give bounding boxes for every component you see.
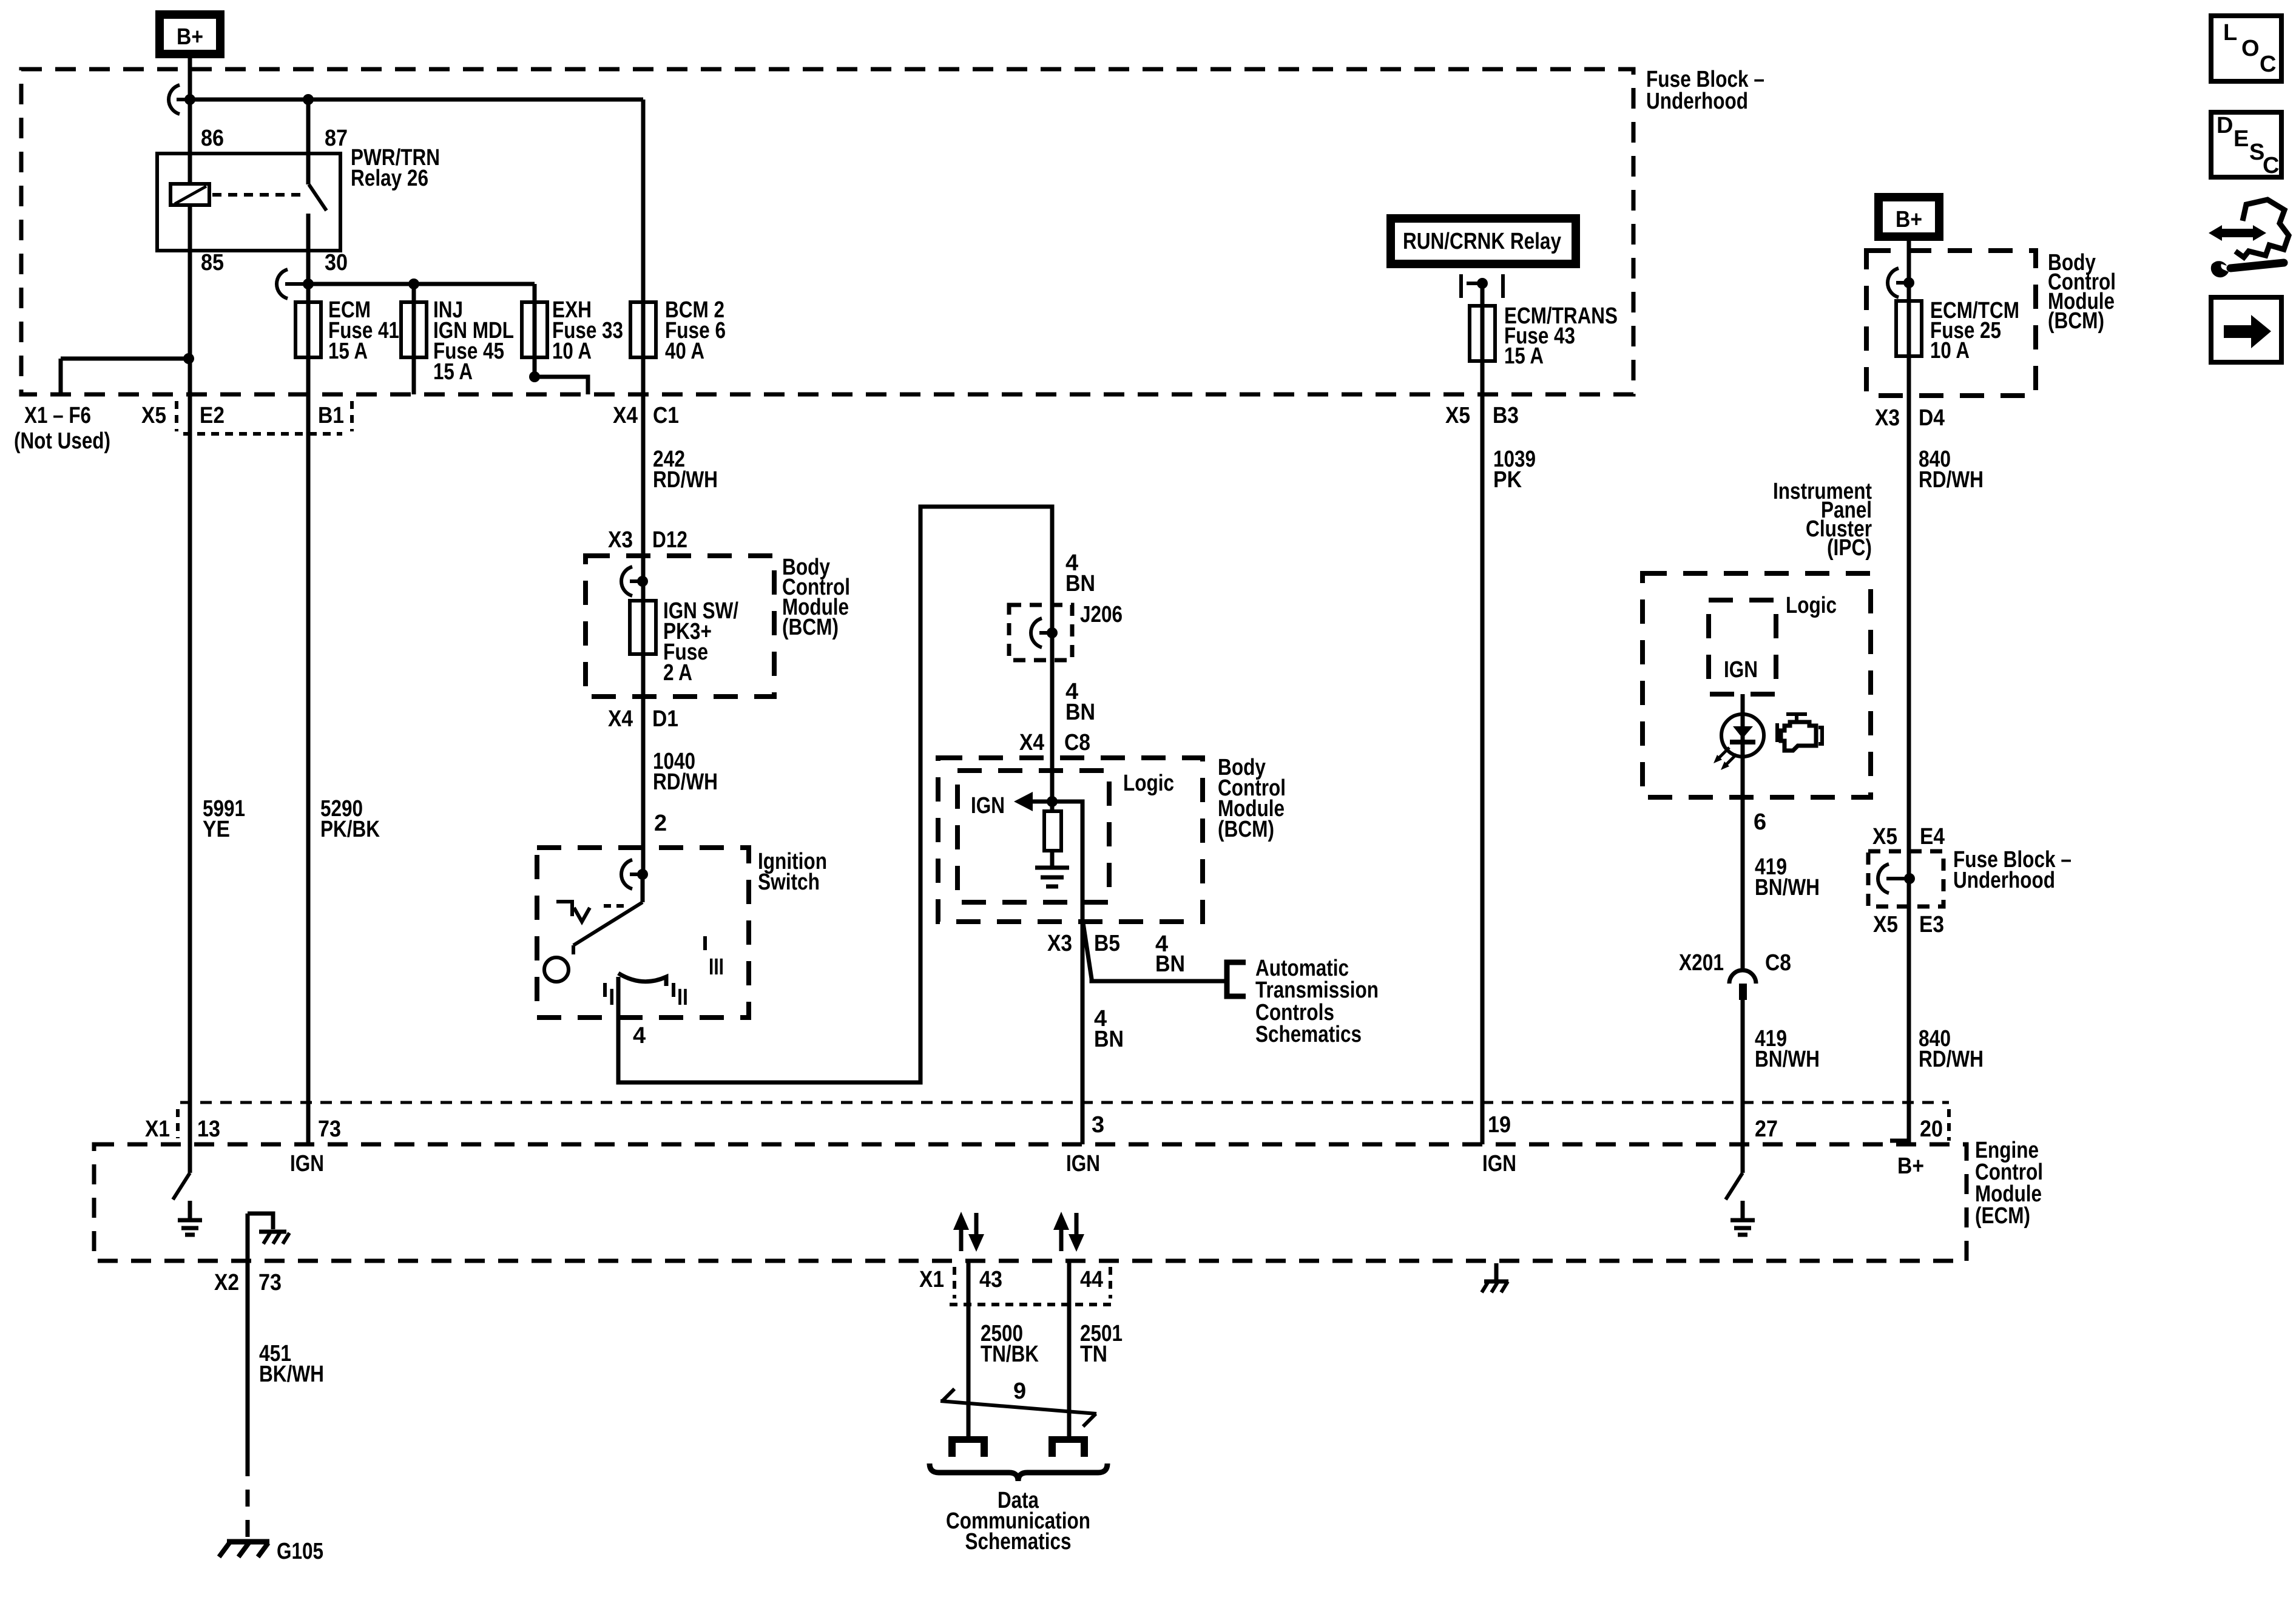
wire B5 down to ECM pin 3 <box>1081 922 1085 1144</box>
svg-text:Underhood: Underhood <box>1646 89 1748 114</box>
wire 419 BN/WH lower <box>1741 1000 1745 1144</box>
label 419 BN/WH lower <box>1755 1026 1820 1072</box>
svg-text:E: E <box>2234 126 2249 152</box>
node INJ fuse junction <box>408 279 419 289</box>
wire 1039 PK <box>1481 394 1485 1144</box>
label Body Control Module (BCM) right <box>1218 755 1286 842</box>
B+ power symbol (top left) <box>160 15 220 54</box>
svg-text:19: 19 <box>1488 1112 1511 1138</box>
Body Control Module dashed box (logic) <box>938 758 1203 922</box>
svg-text:43: 43 <box>979 1267 1002 1292</box>
svg-text:27: 27 <box>1755 1116 1778 1142</box>
svg-text:RUN/CRNK Relay: RUN/CRNK Relay <box>1403 229 1561 254</box>
ignition switch ACC contact <box>556 902 624 922</box>
fuse BCM 2 Fuse 6 <box>630 100 656 394</box>
node E4 clip <box>1878 864 1915 893</box>
svg-text:RD/WH: RD/WH <box>653 467 718 493</box>
svg-text:C: C <box>2263 153 2279 178</box>
svg-text:10 A: 10 A <box>552 339 592 364</box>
svg-text:BN: BN <box>1065 571 1095 596</box>
relay switch blade <box>309 184 326 211</box>
label EXH Fuse 33 10 A <box>552 297 623 364</box>
LED indicator <box>1721 714 1764 757</box>
Engine Control Module dashed box <box>94 1144 1967 1261</box>
fuse EXH Fuse 33 <box>522 284 547 377</box>
label 4 BN (below J206) <box>1065 679 1095 725</box>
svg-text:D4: D4 <box>1919 405 1945 431</box>
svg-text:D12: D12 <box>652 527 687 553</box>
ECM internal case ground hook (X2) <box>248 1214 289 1244</box>
wire B+ into BCM <box>1907 237 1911 394</box>
label BCM 2 Fuse 6 40 A <box>665 297 726 364</box>
fuse IGN SW/PK3+ Fuse 2A <box>630 601 656 654</box>
relay PWR/TRN Relay 26 box <box>157 154 340 251</box>
svg-text:PK/BK: PK/BK <box>320 817 380 842</box>
svg-text:20: 20 <box>1920 1116 1943 1142</box>
svg-text:87: 87 <box>325 126 348 151</box>
icon arrow box <box>2211 297 2281 362</box>
svg-text:Logic: Logic <box>1123 771 1174 796</box>
svg-text:Schematics: Schematics <box>1255 1022 1362 1047</box>
IGN arrow <box>1014 792 1058 811</box>
node EXH fuse output junction <box>529 371 540 382</box>
terminator (wire 2500) <box>948 1436 988 1457</box>
wire 840 end foot <box>1890 1139 1909 1143</box>
svg-text:E3: E3 <box>1919 912 1944 937</box>
label 4 BN (above J206) <box>1065 550 1095 596</box>
terminator (wire 2501) <box>1048 1436 1088 1457</box>
svg-text:X4: X4 <box>1019 730 1044 755</box>
fuse ECM/TRANS Fuse 43 <box>1470 283 1495 394</box>
svg-text:BN: BN <box>1065 700 1095 725</box>
label Automatic Transmission Controls Schematics <box>1255 956 1379 1047</box>
svg-text:Schematics: Schematics <box>965 1529 1072 1555</box>
svg-text:L: L <box>2223 20 2237 46</box>
svg-text:C8: C8 <box>1064 730 1090 755</box>
label 242 RD/WH <box>653 447 718 493</box>
ignition switch position I <box>605 983 615 1010</box>
wire fuse feed bus <box>308 282 535 286</box>
label 4 BN (branch) <box>1155 931 1185 977</box>
label Fuse Block - Underhood (right) <box>1953 847 2071 893</box>
data link bus arrows (pin 43) <box>953 1212 984 1252</box>
label 5290 PK/BK <box>320 796 380 842</box>
icon LOC box <box>2211 16 2281 81</box>
svg-text:X5: X5 <box>1872 824 1897 849</box>
connector separator right of pin 20 <box>1947 1109 1951 1141</box>
svg-text:X5: X5 <box>1445 403 1470 428</box>
svg-text:44: 44 <box>1080 1267 1103 1292</box>
svg-text:X4: X4 <box>613 403 638 428</box>
ignition switch position III <box>705 936 724 980</box>
engine icon (MIL) <box>1777 714 1822 751</box>
label PWR/TRN Relay 26 <box>351 145 440 191</box>
svg-text:Relay 26: Relay 26 <box>351 166 428 191</box>
label 1039 PK <box>1493 447 1536 493</box>
svg-text:Logic: Logic <box>1786 593 1837 618</box>
svg-text:X1: X1 <box>919 1267 944 1292</box>
svg-text:2: 2 <box>654 811 667 836</box>
label Body Control Module (BCM) <box>782 555 850 640</box>
svg-text:TN/BK: TN/BK <box>981 1342 1039 1367</box>
svg-text:YE: YE <box>203 817 230 842</box>
relay coil <box>171 184 209 205</box>
data link bus arrows (pin 44) <box>1053 1212 1084 1252</box>
node BCM right clip <box>1888 268 1914 297</box>
wire 30 contact <box>306 214 311 284</box>
svg-text:RD/WH: RD/WH <box>653 769 718 795</box>
relay output terminal posts <box>1461 274 1503 298</box>
svg-text:40 A: 40 A <box>665 339 704 364</box>
wire 451 dashed section <box>246 1459 250 1538</box>
svg-text:D1: D1 <box>652 706 678 732</box>
svg-text:III: III <box>709 954 724 980</box>
svg-text:Switch: Switch <box>758 869 820 895</box>
label 2501 TN <box>1080 1321 1123 1367</box>
wire 86 coil feed <box>188 100 192 184</box>
svg-text:13: 13 <box>197 1116 220 1142</box>
svg-text:9: 9 <box>1013 1379 1026 1404</box>
label 840 RD/WH <box>1919 447 1984 493</box>
svg-text:30: 30 <box>325 250 348 275</box>
label Engine Control Module (ECM) <box>1975 1138 2043 1229</box>
wire 5991 YE <box>188 394 192 1144</box>
svg-text:15 A: 15 A <box>1504 343 1544 369</box>
svg-text:X201: X201 <box>1679 950 1724 976</box>
wire BCM IGN to B5 <box>1052 802 1082 922</box>
svg-text:IGN: IGN <box>1482 1151 1516 1176</box>
svg-text:J206: J206 <box>1080 602 1123 627</box>
Body Control Module dashed box (right) <box>1866 251 2036 396</box>
wire coil to pin 85 <box>188 205 192 394</box>
relay RUN/CRNK Relay labeled box <box>1391 218 1576 264</box>
wire relay link dashed <box>212 193 303 197</box>
pin X1 - F6 (Not Used) <box>14 403 110 454</box>
label 2500 TN/BK <box>981 1321 1039 1367</box>
wire 2501 TN <box>1067 1261 1072 1437</box>
Logic dashed box <box>957 771 1109 902</box>
svg-text:IGN: IGN <box>1066 1151 1100 1176</box>
splice J206 dashed box <box>1009 605 1072 660</box>
svg-text:IGN: IGN <box>1724 657 1758 683</box>
svg-text:73: 73 <box>318 1116 341 1142</box>
svg-text:15 A: 15 A <box>433 359 473 385</box>
svg-text:IGN: IGN <box>971 793 1005 819</box>
label 4 BN (to ECM) <box>1094 1006 1124 1052</box>
fuse ECM Fuse 41 <box>295 284 321 394</box>
node BCM input clip <box>621 567 648 596</box>
svg-text:6: 6 <box>1754 809 1766 835</box>
node top bus junction with connector clip <box>169 85 195 114</box>
ignition switch rotor arc <box>618 973 666 986</box>
svg-text:(ECM): (ECM) <box>1975 1203 2030 1229</box>
svg-text:(Not Used): (Not Used) <box>14 428 110 454</box>
wire B+ feed down <box>188 56 192 100</box>
IPC dashed box <box>1643 573 1871 797</box>
svg-text:86: 86 <box>201 126 224 151</box>
svg-text:85: 85 <box>201 250 224 275</box>
label Ignition Switch <box>758 849 827 895</box>
svg-text:BN/WH: BN/WH <box>1755 875 1820 900</box>
svg-text:X5: X5 <box>1873 912 1898 937</box>
node J206 clip <box>1031 618 1058 647</box>
svg-text:BN: BN <box>1094 1027 1124 1052</box>
svg-text:B3: B3 <box>1493 403 1519 428</box>
svg-text:(BCM): (BCM) <box>2048 308 2104 334</box>
ECM driver switch (pin 13) <box>173 1144 190 1200</box>
label ECM/TRANS Fuse 43 15 A <box>1504 303 1618 369</box>
svg-text:B5: B5 <box>1094 931 1120 956</box>
icon DESC box <box>2211 112 2281 178</box>
svg-text:X4: X4 <box>608 706 633 732</box>
label Fuse Block - Underhood <box>1646 67 1764 114</box>
svg-text:B+: B+ <box>1897 1153 1924 1179</box>
connector X201 C8 inline <box>1729 970 1756 1000</box>
svg-text:C: C <box>2260 52 2276 77</box>
ground (BCM logic) <box>1035 868 1069 886</box>
svg-text:15 A: 15 A <box>328 339 368 364</box>
ground (ECM pin 13) <box>178 1201 202 1235</box>
ignition switch pivot <box>544 957 569 982</box>
node junction 87 <box>303 94 314 105</box>
svg-text:BN: BN <box>1155 951 1185 977</box>
wire IPC logic to LED <box>1741 694 1745 797</box>
label ECM/TCM Fuse 25 10 A <box>1930 298 2019 363</box>
label INJ IGN MDL Fuse 45 15 A <box>433 297 514 385</box>
wire 451 BK/WH <box>246 1214 250 1459</box>
label Data Communication Schematics <box>946 1488 1090 1555</box>
svg-text:O: O <box>2241 36 2260 61</box>
svg-text:B+: B+ <box>1896 207 1922 232</box>
wire X1-F6 not used branch <box>61 353 194 394</box>
svg-text:G105: G105 <box>277 1539 323 1564</box>
svg-text:3: 3 <box>1092 1112 1104 1138</box>
wire branch to transmission <box>1083 923 1227 981</box>
node bus-30 junction with connector clip <box>277 269 314 299</box>
wire 840 RD/WH upper <box>1907 394 1911 1143</box>
svg-text:B1: B1 <box>318 403 344 428</box>
B+ power symbol (right) <box>1879 197 1939 237</box>
Ignition Switch dashed box <box>537 848 749 1018</box>
ECM connector face dotted line <box>180 1101 1949 1104</box>
svg-text:E4: E4 <box>1920 824 1945 849</box>
label Instrument Panel Cluster (IPC) <box>1773 479 1872 561</box>
svg-text:X2: X2 <box>214 1270 239 1295</box>
svg-text:4: 4 <box>633 1023 646 1048</box>
label IGN SW/ PK3+ Fuse 2 A <box>663 598 738 686</box>
label ECM Fuse 41 15 A <box>328 297 399 364</box>
ECM case ground (bottom border) <box>1482 1263 1508 1292</box>
svg-text:II: II <box>677 985 688 1010</box>
wire 87 contact <box>306 100 311 184</box>
svg-text:X1: X1 <box>145 1116 170 1142</box>
wire 2500 TN/BK <box>967 1261 971 1437</box>
svg-text:D: D <box>2217 113 2233 138</box>
fuse ECM/TCM Fuse 25 <box>1896 301 1922 356</box>
ignition switch position II <box>674 983 688 1010</box>
wire EXH output elbow <box>535 377 588 394</box>
resistor (BCM pull-down) <box>1044 802 1061 866</box>
label 840 RD/WH lower <box>1919 1026 1984 1072</box>
connector X1 separator <box>176 1109 180 1138</box>
ECM driver switch (pin 27) <box>1726 1144 1743 1200</box>
svg-text:Transmission: Transmission <box>1255 977 1379 1003</box>
off-page bracket (automatic transmission) <box>1227 962 1246 996</box>
connector E2/B1 sub-box <box>177 401 352 434</box>
ground G105 chassis symbol <box>219 1542 269 1557</box>
label 451 BK/WH <box>259 1341 324 1387</box>
svg-text:X5: X5 <box>141 403 166 428</box>
svg-text:I: I <box>609 985 615 1010</box>
svg-text:X3: X3 <box>608 527 633 553</box>
svg-text:RD/WH: RD/WH <box>1919 467 1984 493</box>
label Body Control Module (BCM) far right <box>2048 250 2116 334</box>
connector E4 dashed box (fuse block underhood) <box>1868 851 1943 906</box>
connector X1 43/44 sub-box <box>950 1267 1115 1305</box>
svg-text:X1 – F6: X1 – F6 <box>24 403 91 428</box>
LED emission arrows <box>1714 748 1737 770</box>
BCM fuse box dashed (Body Control Module) <box>586 556 774 697</box>
fuse INJ IGN MDL Fuse 45 <box>401 284 427 394</box>
svg-text:BK/WH: BK/WH <box>259 1362 324 1387</box>
label 419 BN/WH <box>1755 854 1820 900</box>
node ignition switch input clip <box>621 860 648 889</box>
wire 242 RD/WH <box>641 394 646 874</box>
icon navigate wrench <box>2209 200 2289 277</box>
svg-text:C1: C1 <box>653 403 679 428</box>
svg-text:B+: B+ <box>177 24 203 50</box>
label 5991 YE <box>203 796 245 842</box>
svg-text:10 A: 10 A <box>1930 338 1970 363</box>
wire top bus to BCM2 fuse <box>190 98 643 102</box>
ground (ECM pin 27) <box>1730 1201 1755 1235</box>
ignition switch blade <box>573 874 643 954</box>
svg-text:73: 73 <box>258 1270 282 1295</box>
svg-text:(BCM): (BCM) <box>782 615 839 640</box>
twisted pair symbol <box>940 1389 1096 1426</box>
brace (data communication) <box>930 1463 1107 1481</box>
svg-text:IGN: IGN <box>290 1151 324 1176</box>
svg-text:RD/WH: RD/WH <box>1919 1047 1984 1072</box>
svg-text:(BCM): (BCM) <box>1218 817 1274 842</box>
svg-text:2 A: 2 A <box>663 660 692 686</box>
wire ignition switch pin 4 output <box>618 507 1052 1082</box>
wire 5290 PK/BK <box>306 394 311 1144</box>
svg-text:Underhood: Underhood <box>1953 868 2055 893</box>
svg-text:X3: X3 <box>1875 405 1900 431</box>
svg-text:C8: C8 <box>1765 950 1791 976</box>
svg-text:E2: E2 <box>200 403 225 428</box>
IPC Logic dashed box <box>1709 600 1776 694</box>
svg-text:TN: TN <box>1080 1342 1107 1367</box>
wire 419 BN/WH upper <box>1741 797 1745 969</box>
svg-text:PK: PK <box>1493 467 1522 493</box>
svg-text:(IPC): (IPC) <box>1827 535 1872 561</box>
label 1040 RD/WH <box>653 749 718 795</box>
Fuse Block - Underhood dashed box <box>21 69 1633 394</box>
svg-text:X3: X3 <box>1047 931 1072 956</box>
svg-text:BN/WH: BN/WH <box>1755 1047 1820 1072</box>
